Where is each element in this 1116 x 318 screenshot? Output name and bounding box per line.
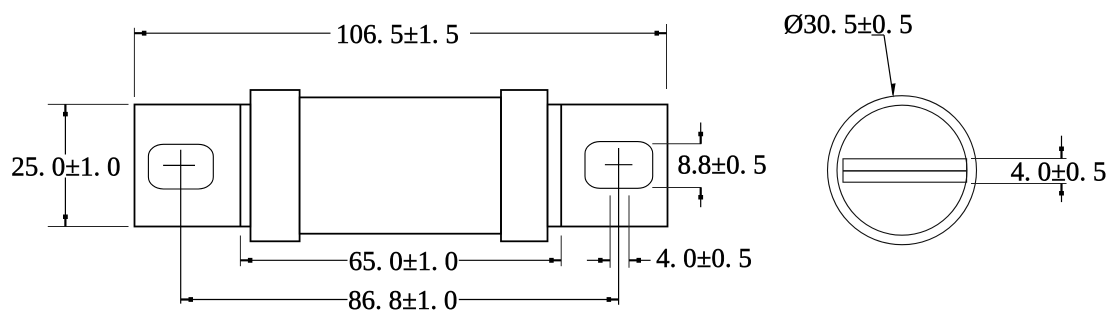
- svg-text:4. 0±0. 5: 4. 0±0. 5: [1011, 156, 1107, 186]
- svg-text:86. 8±1. 0: 86. 8±1. 0: [348, 285, 457, 315]
- svg-text:8.8±0. 5: 8.8±0. 5: [678, 149, 767, 179]
- svg-text:Ø30. 5±0. 5: Ø30. 5±0. 5: [784, 9, 913, 39]
- svg-text:4. 0±0. 5: 4. 0±0. 5: [656, 243, 752, 273]
- svg-text:106. 5±1. 5: 106. 5±1. 5: [336, 19, 459, 49]
- svg-text:25. 0±1. 0: 25. 0±1. 0: [11, 151, 120, 181]
- svg-text:65. 0±1. 0: 65. 0±1. 0: [349, 246, 458, 276]
